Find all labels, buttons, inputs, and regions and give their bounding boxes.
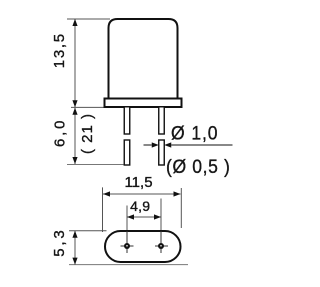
lead diameter callout arrows <box>144 142 233 147</box>
svg-text:5,3: 5,3 <box>51 227 68 256</box>
lead 1 lower segment <box>124 140 130 165</box>
hole 2 center line <box>160 199 162 254</box>
svg-text:Ø 1,0: Ø 1,0 <box>171 121 218 143</box>
extension line stadium top (5,3) <box>69 230 107 232</box>
footprint stadium outline <box>105 231 181 262</box>
extension line stadium bottom (5,3) <box>69 264 188 266</box>
dimension line 6,0 / (21) <box>72 108 77 164</box>
hole 1 center line <box>126 206 128 254</box>
hole 2 <box>155 231 168 253</box>
bottom view: extension line right 11,5 <box>180 188 182 228</box>
hole 1 <box>121 231 134 253</box>
svg-text:6,0: 6,0 <box>51 118 68 147</box>
svg-text:(Ø 0,5 ): (Ø 0,5 ) <box>166 155 231 177</box>
extension line lead tips <box>67 164 124 166</box>
svg-text:13,5: 13,5 <box>51 32 68 68</box>
flange <box>105 99 182 108</box>
lead 2 upper segment <box>159 107 165 134</box>
svg-text:( 21 ): ( 21 ) <box>79 113 96 154</box>
extension line top of can <box>67 18 110 20</box>
lead 2 lower segment <box>159 140 165 165</box>
dimension line 13,5 <box>72 19 77 107</box>
extension line flange bottom <box>71 106 105 108</box>
svg-text:11,5: 11,5 <box>124 174 152 191</box>
can body <box>109 19 178 99</box>
dimension line 11,5 <box>103 191 181 196</box>
svg-text:4,9: 4,9 <box>130 198 150 214</box>
bottom view: extension line left 11,5 <box>102 187 104 232</box>
dimension line 4,9 <box>127 214 161 219</box>
lead 1 upper segment <box>124 107 130 134</box>
dimension line 5,3 <box>72 231 77 265</box>
